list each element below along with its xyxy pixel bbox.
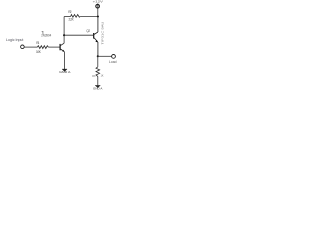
svg-text:R2: R2 (68, 10, 71, 14)
wire R1 to base of T1 (48, 46, 59, 48)
ground (T1 emitter) (59, 69, 71, 74)
node junction load (97, 55, 99, 57)
wire emitter of Q2 to load node (97, 42, 99, 56)
svg-text:GND A: GND A (59, 70, 71, 74)
terminal J2 (load) (112, 55, 116, 59)
terminal J1 (logic input) (21, 45, 25, 49)
resistor R2 (71, 15, 81, 18)
svg-text:+12V: +12V (93, 0, 103, 4)
node junction collector/base-of-Q2 (63, 34, 65, 36)
transistor T1 (60, 43, 65, 52)
svg-text:1K: 1K (101, 75, 104, 78)
svg-text:TIP31C 9AU: TIP31C 9AU (100, 22, 104, 45)
wire to load terminal (98, 55, 112, 57)
wire junction to base of Q2 (64, 34, 93, 36)
resistor R1 (37, 46, 48, 49)
power terminal +12V (96, 4, 100, 8)
svg-text:Q2: Q2 (86, 29, 90, 33)
wire emitter of T1 down (63, 52, 65, 69)
node junction top-right (97, 15, 99, 17)
wire right rail (97, 17, 99, 32)
svg-text:R1: R1 (36, 41, 39, 45)
wire collector rail of T1 (63, 17, 65, 44)
transistor Q2 (94, 32, 98, 42)
svg-text:GND A: GND A (93, 86, 103, 90)
svg-text:2N3904: 2N3904 (41, 34, 51, 38)
svg-text:2.2K: 2.2K (69, 18, 75, 22)
wire top rail segment left (64, 16, 71, 18)
wire top rail segment right (80, 16, 98, 18)
ground (bottom right) (93, 86, 103, 91)
wire load node down to R3 (97, 56, 99, 67)
svg-text:Load: Load (109, 60, 117, 64)
svg-text:10K: 10K (36, 50, 42, 54)
resistor R3 (96, 67, 100, 77)
wire input to R1 (24, 46, 37, 48)
svg-text:Logic Input: Logic Input (6, 38, 23, 42)
wire R3 to ground (97, 76, 99, 85)
wire power stub (97, 3, 99, 16)
